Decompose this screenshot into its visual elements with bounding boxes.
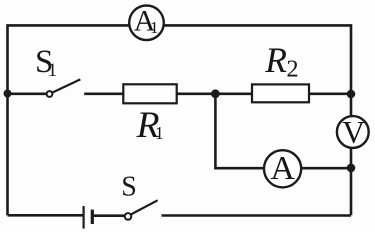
ammeter A: [264, 150, 301, 188]
node: middle junction after R1: [211, 89, 220, 98]
node: left border / middle wire: [4, 90, 12, 98]
svg-text:1: 1: [150, 18, 159, 37]
wire resistor R2 to right border: [309, 93, 351, 96]
ammeter A1: [129, 5, 164, 41]
wire bottom border right segment (switch S to corner): [162, 214, 352, 217]
wire branch: node down and right to border (through ammeter A): [215, 94, 351, 168]
voltmeter V: [337, 115, 369, 150]
battery (cell): [84, 206, 93, 229]
wire resistor R1 to resistor R2 (through node): [177, 93, 253, 96]
svg-text:R: R: [264, 40, 287, 80]
wire middle left (border to switch S1): [8, 93, 47, 96]
svg-text:A: A: [270, 150, 295, 187]
switch S1: [47, 79, 81, 97]
svg-text:S: S: [121, 171, 137, 202]
svg-text:1: 1: [155, 123, 164, 143]
svg-text:1: 1: [48, 60, 58, 81]
wire bottom border left segment: [8, 214, 84, 217]
node: right border / branch wire: [347, 164, 356, 173]
wire switch S1 to resistor R1: [84, 93, 124, 96]
wire bottom border middle segment (battery to switch S): [92, 214, 125, 217]
switch S: [125, 200, 158, 219]
node: right border / middle wire: [347, 90, 356, 99]
label S1: [35, 44, 57, 81]
resistor R2: [252, 84, 309, 102]
wire outer loop: left border, top border, right border: [8, 25, 352, 215]
svg-text:V: V: [342, 115, 365, 150]
svg-text:2: 2: [286, 56, 298, 83]
label R1: [136, 105, 164, 146]
label R2: [264, 40, 298, 83]
resistor R1: [123, 84, 176, 103]
